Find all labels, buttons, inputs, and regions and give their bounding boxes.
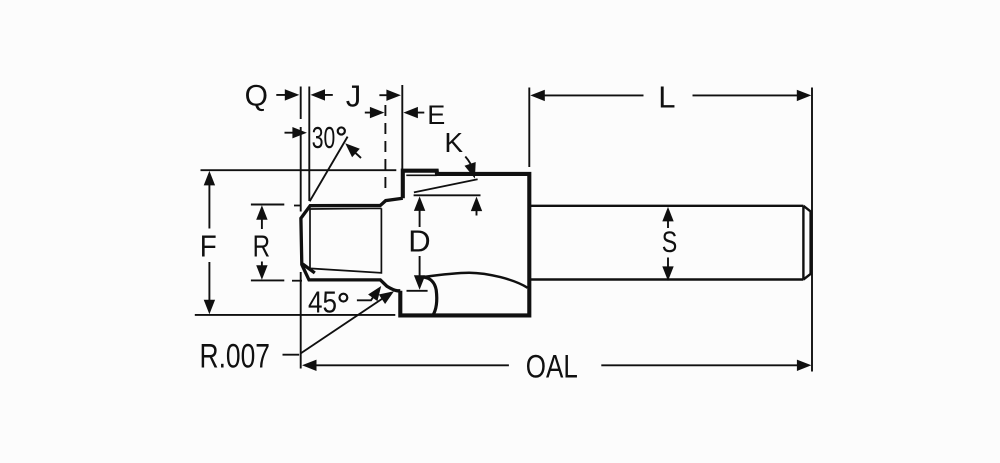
arrowhead R.007 leader (379, 291, 394, 304)
arrowhead S down (662, 266, 673, 281)
arrowhead 30deg on angle line (345, 143, 360, 157)
shank outline (531, 206, 811, 280)
thread top edge stub over extension line (294, 205, 302, 207)
arrowhead F down (204, 300, 215, 315)
extension line V5 shank start (528, 88, 530, 168)
dimension R line (261, 208, 263, 277)
degree symbol for 45 (340, 294, 348, 302)
R reference tick bottom (251, 279, 284, 281)
svg-text:Q: Q (245, 80, 268, 113)
svg-text:45: 45 (308, 284, 337, 319)
svg-text:30: 30 (312, 120, 336, 155)
dimension J left arrow line (314, 94, 333, 96)
dimension Q arrow line (276, 94, 296, 96)
cutter head outline (400, 171, 529, 316)
extension line V6 tool right end (811, 88, 813, 372)
arrowhead L right (797, 90, 812, 101)
dimension OAL line (305, 364, 809, 366)
K gauge up arrow line (476, 200, 478, 216)
arrowhead E right-pointing-left (403, 107, 418, 118)
dimension S up arrow line (667, 210, 669, 228)
arrowhead 30deg leader right (292, 127, 307, 138)
arrowhead K gauge up (471, 197, 482, 212)
R.007 leader dash (283, 354, 300, 356)
thread outer profile thick outline (301, 198, 403, 291)
arrowhead OAL right (797, 360, 812, 371)
svg-text:E: E (427, 100, 445, 130)
thread root inner rectangle (310, 208, 381, 273)
extension line V4 head front face (401, 85, 403, 169)
arrowhead D down (414, 275, 425, 290)
dimension E right arrow line (407, 112, 425, 114)
thread bottom edge stub over extension line (292, 280, 302, 282)
K gash diagonal (414, 179, 478, 192)
45 degree leader line (357, 291, 378, 301)
arrowhead L left (530, 90, 545, 101)
D reference tick bottom (407, 290, 428, 292)
svg-text:S: S (662, 226, 678, 259)
arrowhead F up (204, 171, 215, 186)
arrowhead R up (256, 205, 267, 220)
dimension J right arrow line (379, 94, 397, 96)
svg-text:D: D (408, 224, 430, 259)
30 degree leader arrow line (285, 132, 304, 134)
arrowhead D up (414, 196, 425, 211)
degree symbol for 30 (338, 127, 345, 134)
extension line V2 thread full-form start (308, 87, 310, 202)
extension line H2 F bottom (195, 314, 395, 316)
30 degree angle line (310, 137, 348, 202)
neck D top line (414, 194, 481, 196)
K leader line (465, 157, 473, 172)
thread bottom chamfer second line (303, 264, 315, 273)
arrowhead 45deg leader (368, 286, 381, 301)
dimension E left arrow line (365, 112, 381, 114)
R reference tick top (251, 204, 284, 206)
arrowhead J left (311, 89, 326, 100)
arrowhead S up (662, 207, 673, 222)
arrowhead Q right (285, 89, 300, 100)
arrowhead R down (256, 265, 267, 280)
svg-text:K: K (444, 127, 463, 158)
dimension L line (534, 94, 809, 96)
tooth heel arc (423, 277, 436, 316)
arrowhead K leader down (465, 162, 476, 179)
extension line V1 tool left face (300, 87, 302, 369)
head top serration underline (406, 174, 436, 176)
svg-text:F: F (200, 229, 217, 264)
svg-text:R.007: R.007 (200, 337, 271, 375)
svg-text:R: R (253, 229, 271, 264)
extension line H1 F top (201, 169, 397, 171)
extension line V3 thread end (dashed) (384, 105, 386, 194)
svg-text:L: L (658, 80, 675, 115)
dimension F line (208, 174, 210, 312)
30 degree arrow tail (349, 146, 362, 158)
flute curve (423, 273, 527, 288)
svg-text:J: J (346, 79, 362, 114)
arrowhead OAL left (302, 360, 317, 371)
arrowhead J right (386, 90, 401, 101)
R.007 leader diagonal (301, 293, 392, 354)
svg-text:OAL: OAL (526, 348, 578, 384)
dimension D line (419, 200, 421, 287)
dimension S down arrow line (667, 258, 669, 278)
arrowhead E left-pointing-right (370, 107, 385, 118)
